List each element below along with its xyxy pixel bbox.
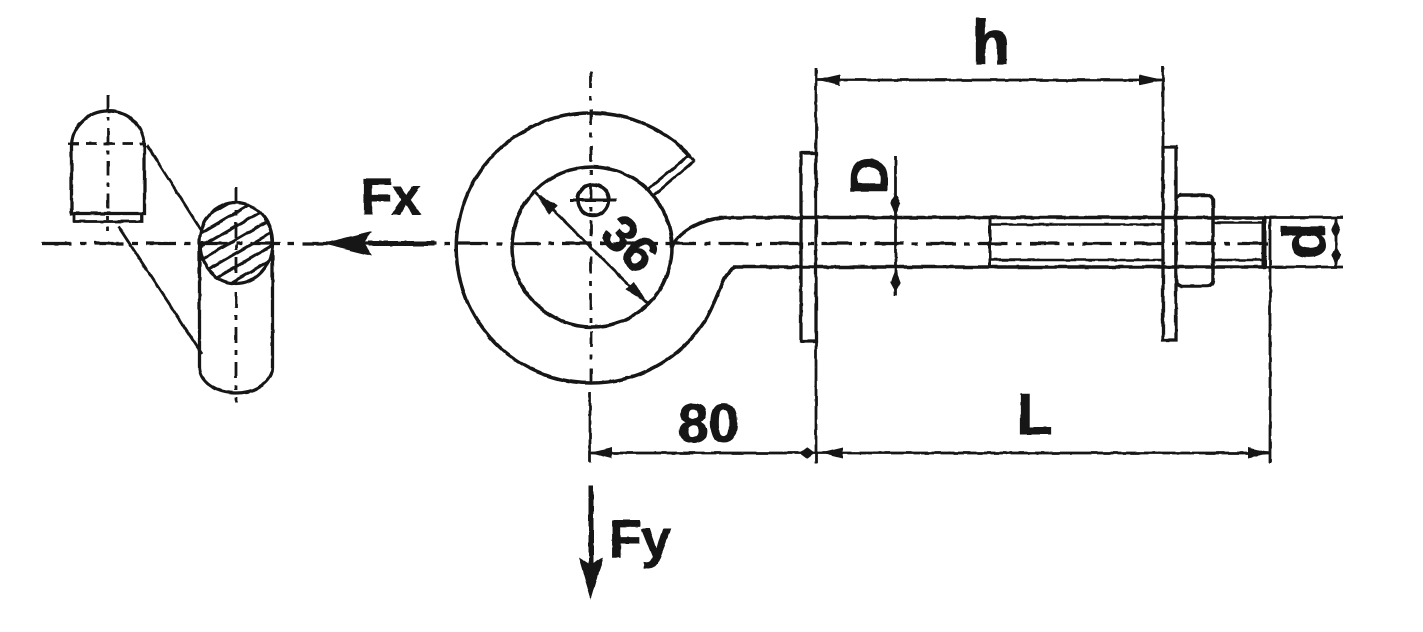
rod top edge (719, 216, 1266, 220)
dimension d extension bottom (1266, 266, 1343, 269)
dimension d line (1335, 218, 1338, 268)
hook neck bottom fillet (700, 267, 736, 328)
dimension d arrow lower (1331, 246, 1340, 266)
dimension D line (894, 156, 897, 296)
dimension h arrow left (816, 75, 840, 86)
rod bottom edge (733, 265, 1266, 269)
dimension d arrow upper (1331, 219, 1340, 239)
bolt end face (1262, 217, 1267, 267)
section cylinder vertical centerline (235, 187, 238, 403)
svg-text:80: 80 (678, 392, 739, 454)
svg-text:h: h (972, 9, 1010, 78)
diameter arrow upper left (535, 192, 558, 215)
section cylinder right side (271, 250, 274, 367)
left plate (801, 153, 816, 341)
dimension h extension right (1162, 66, 1165, 150)
thread root bottom left segment (990, 259, 1162, 262)
svg-text:D: D (841, 157, 899, 195)
dimension h extension left (815, 68, 818, 463)
section cylinder bottom cap (200, 367, 273, 393)
hook neck top fillet (672, 218, 722, 248)
svg-text:Fx: Fx (361, 168, 421, 225)
dimension D arrow upper (890, 194, 900, 217)
svg-text:L: L (1017, 382, 1052, 447)
dimension 80 arrow left (590, 448, 612, 459)
dimension h line (816, 79, 1163, 82)
svg-text:d: d (1271, 223, 1338, 260)
force arrow Fy shaft (589, 486, 594, 568)
hook tip cut face line 1 (647, 155, 689, 190)
projection line upper (147, 145, 201, 230)
force arrow Fx head (322, 231, 372, 256)
force arrow Fx shaft (368, 241, 434, 246)
thread root top left segment (990, 223, 1162, 226)
section cylinder hatched circle (200, 203, 273, 284)
right plate (1163, 147, 1176, 340)
dimension L extension right (1269, 218, 1272, 463)
rod end view vertical centerline (107, 95, 110, 231)
rod end view horizontal dashed line (68, 142, 146, 145)
dimension 80 arrow right (799, 447, 815, 459)
thread start line (989, 218, 992, 268)
svg-text:Fy: Fy (609, 510, 671, 569)
diameter dimension line (535, 192, 648, 304)
rod end view bottom band (74, 214, 142, 222)
section cylinder left side (198, 247, 201, 367)
svg-text:36: 36 (591, 205, 670, 284)
dimension 80 and L line (590, 452, 1271, 455)
hook outer arc (456, 113, 700, 383)
section hatching (185, 168, 290, 323)
dimension 80 extension left (589, 392, 592, 462)
rod end view dome outline (72, 111, 145, 213)
hook tip cut face line 2 (652, 161, 694, 197)
hook vertical centerline (590, 72, 593, 390)
dimension L arrow left (821, 448, 844, 459)
diameter symbol bar (570, 199, 617, 202)
diameter symbol circle (578, 185, 609, 216)
dimension h arrow right (1139, 75, 1163, 86)
dimension D arrow lower (890, 269, 900, 292)
projection line lower (118, 226, 202, 354)
force arrow Fy head (579, 557, 604, 600)
diameter arrow lower right (625, 281, 648, 304)
thread root top right segment (1214, 221, 1262, 224)
dimension L arrow right (1248, 448, 1271, 459)
wire horizontal main centerline (42, 242, 1268, 245)
hook tip cap (689, 155, 694, 161)
dimension d extension top (1266, 216, 1343, 219)
nut (1176, 195, 1213, 286)
hook inner circle (512, 167, 672, 327)
thread root bottom right segment (1214, 259, 1262, 262)
